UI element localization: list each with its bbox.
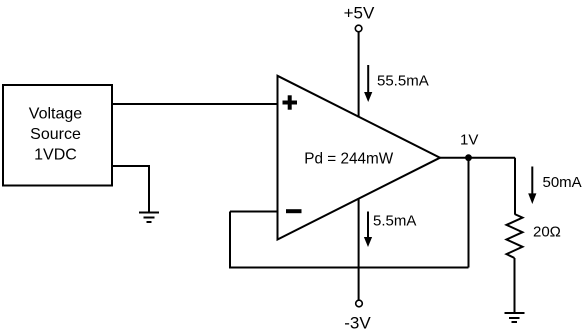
- wire feedback: bottom horizontal: [229, 267, 469, 269]
- current arrow 5.5mA: [364, 212, 416, 248]
- ground (below V1): [139, 213, 159, 223]
- wire from V1 to op-amp noninverting input: [112, 103, 278, 105]
- svg-text:Voltage: Voltage: [29, 106, 82, 123]
- wire op-amp bottom edge to -3V: [358, 198, 360, 300]
- node output dot: [465, 154, 472, 161]
- svg-text:55.5mA: 55.5mA: [377, 73, 429, 90]
- +5V supply terminal: [344, 4, 375, 32]
- svg-text:1VDC: 1VDC: [34, 147, 77, 164]
- wire +5V to op-amp top edge: [358, 32, 360, 118]
- op-amp noninverting input + symbol: [283, 95, 298, 109]
- voltage source V1: [3, 85, 112, 186]
- current arrow 55.5mA: [364, 65, 429, 102]
- svg-text:Source: Source: [30, 126, 81, 143]
- svg-text:-3V: -3V: [344, 314, 371, 333]
- svg-text:50mA: 50mA: [543, 174, 582, 191]
- wire feedback: inverting input: [230, 211, 278, 213]
- current arrow 50mA: [528, 167, 581, 205]
- ground (below resistor): [505, 313, 525, 322]
- wire feedback: right vertical up to output node: [468, 158, 470, 268]
- svg-text:+5V: +5V: [344, 4, 375, 23]
- svg-text:Pd = 244mW: Pd = 244mW: [304, 151, 393, 168]
- wire feedback: left vertical: [229, 212, 231, 268]
- svg-text:1V: 1V: [460, 132, 478, 149]
- op-amp inverting input - symbol: [286, 209, 302, 213]
- wire resistor to ground: [514, 258, 516, 313]
- -3V supply terminal: [344, 300, 371, 332]
- wire from V1 bottom to ground: [112, 166, 149, 213]
- op-amp U1: [278, 76, 441, 240]
- svg-text:20Ω: 20Ω: [533, 224, 561, 241]
- wire output down to resistor: [514, 158, 516, 214]
- resistor R1: [507, 214, 523, 258]
- svg-text:5.5mA: 5.5mA: [373, 213, 416, 230]
- wire op-amp output: [440, 157, 515, 159]
